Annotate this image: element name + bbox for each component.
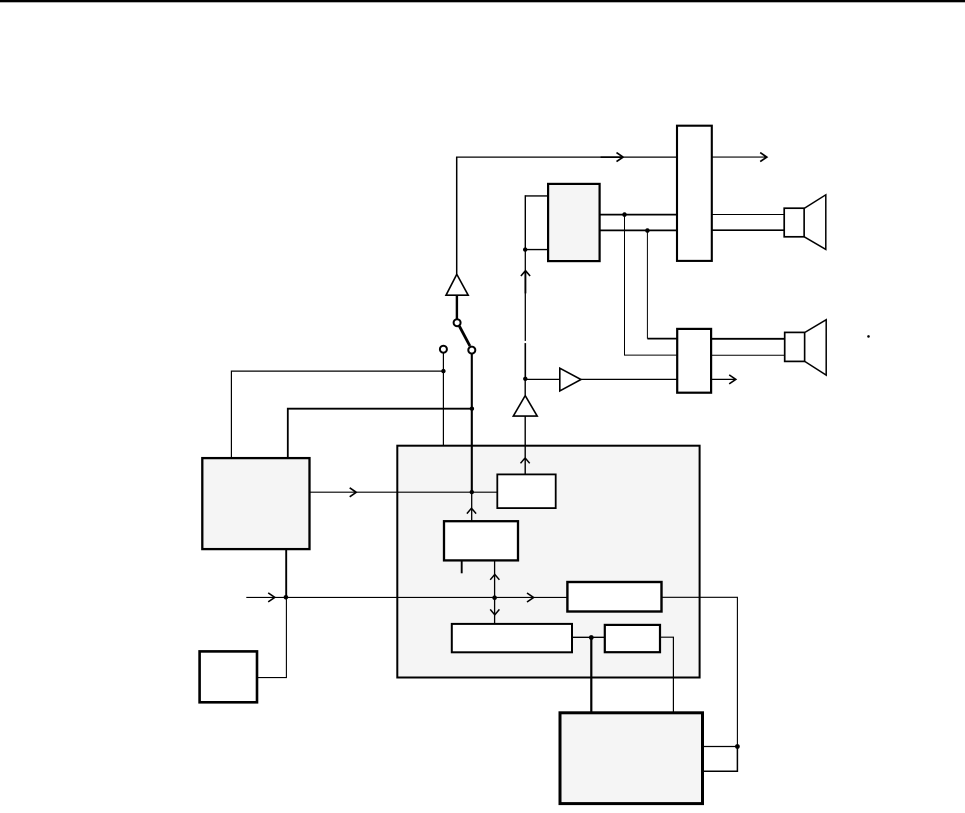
speaker SP1 driver box (784, 208, 804, 237)
wire: control line down into box3 with down arrow (494, 598, 496, 624)
arrow chevron at start of control line (268, 593, 275, 602)
arrow chevron up above box1 (521, 458, 530, 463)
stray dot (speck) (867, 335, 870, 338)
wire: top feed vertical from amp A1 up to top line (456, 157, 458, 275)
junction dot: box3/box5 node (589, 635, 594, 640)
wire: top horizontal line out of crossover R1 to arrow (680, 156, 766, 158)
junction dot: amp unit upper output tap (622, 212, 627, 217)
wire: arrow tail emphasis below feedback chevron (524, 271, 526, 294)
wire: left box top right lead up and over to switch common (288, 409, 473, 459)
wire: R1 to speaker1 upper lead (712, 214, 785, 216)
speaker SP2 driver box (785, 332, 805, 361)
arrow chevron up below junction (467, 508, 476, 513)
amplifier A2 (points up) (513, 396, 537, 417)
wire: control line from box4 right, over and down (662, 597, 738, 746)
junction dot: bracket node (523, 247, 527, 251)
junction dot: box1 input node (470, 490, 474, 494)
arrow chevron on left box output (350, 488, 357, 497)
wire: top horizontal line into crossover R1 (456, 156, 680, 158)
wire: amp A1 base down to switch pole (456, 295, 458, 319)
junction dot: bottom right node (735, 744, 740, 749)
speaker SP1 horn (804, 195, 826, 250)
wire: node down and left into small box (257, 597, 286, 677)
wire: R2 to speaker2 upper lead (thick) (712, 338, 785, 340)
wire: switch common down through junction to gray module (471, 353, 473, 492)
arrow chevron end of top line (760, 153, 767, 162)
wire: bracket bottom stub into amp unit (525, 249, 547, 251)
wire: amp unit lower output to R1 (599, 229, 677, 231)
arrow chevron up below box2 (490, 574, 499, 579)
amplifier A1 (points up) (446, 274, 468, 295)
block: bottom gray unit (560, 713, 703, 804)
wire: junction down into box2 with up arrow (471, 492, 473, 521)
wire: box2 bottom dead-end stub (461, 561, 463, 574)
wire: upper tap down and right to R2 (thin) (625, 215, 678, 356)
block: box5 inside module (605, 625, 660, 652)
wire: arrow tail emphasis on top line (601, 156, 624, 158)
block: box3 inside module (452, 624, 572, 652)
junction dot: switch throw node (441, 369, 445, 373)
wire: amp unit upper output to R1 (599, 214, 677, 216)
wire: amp A2 base down into box1 with up arrow (524, 416, 526, 475)
junction dot: box2/box3 node (492, 595, 497, 600)
junction dot: amp unit lower output tap (645, 228, 650, 233)
arrow chevron down above box3 (490, 609, 499, 614)
wire: bracket top stub into amp unit (525, 195, 547, 197)
top border rule (0, 0, 965, 2)
block: box4 inside module (567, 582, 661, 612)
wire: node down to gray module top edge (442, 371, 444, 445)
wire: link node down to bottom unit (thick) (590, 637, 592, 713)
block: box1 inside module (497, 474, 555, 508)
block: crossover network R1 (tall rectangle) (677, 126, 712, 261)
wire: bracket vertical (524, 195, 526, 249)
speaker SP2 horn (805, 320, 827, 375)
block: left source unit (202, 458, 309, 549)
block: crossover network R2 (lower rectangle) (677, 329, 711, 393)
wire: node to amp A3 input (525, 378, 559, 380)
amplifier A3 (points right) (560, 368, 581, 391)
wire: feedback line lower part to amp node (524, 343, 526, 379)
wire: right drop lower segment with stubs into bottom unit (702, 747, 737, 772)
switch pole contact circle (454, 319, 461, 326)
junction dot: control line left node (284, 595, 289, 600)
block: small bottom-left box (200, 651, 257, 702)
wire: node down to amp A2 apex (524, 379, 526, 397)
wire: amp A3 output to lower crossover R2 (581, 378, 677, 380)
wire: R1 to speaker1 lower lead (712, 229, 785, 231)
block: main gray module (large control unit) (397, 446, 699, 678)
wire: lower tap down and right to R2 (thick) (646, 231, 648, 339)
switch common contact circle (468, 347, 475, 354)
wire: feedback line below bracket node (upper part) (524, 250, 526, 341)
wire: left box top left lead up and over to switch throw (231, 371, 443, 458)
junction dot: switch common node (470, 407, 474, 411)
switch blade (459, 326, 470, 346)
wire: bottom main control line left segment (246, 596, 567, 598)
wire: box5 right over and down to bottom unit (660, 637, 673, 713)
wire: R2 to speaker2 lower lead (thin) (712, 354, 785, 356)
wire: switch throw stub down to node (442, 353, 444, 371)
block: amplifier unit (small gray box) (548, 184, 600, 261)
arrow chevron mid top line (617, 153, 624, 162)
arrow chevron end of R2 output (729, 375, 736, 384)
arrow chevron before box4 (527, 593, 534, 602)
arrow chevron up on feedback line (521, 271, 530, 276)
wire: upper stub into bottom unit (702, 746, 737, 748)
wire: box2 bottom to control line with up arrow (494, 561, 496, 598)
switch throw contact circle (440, 346, 447, 353)
wire: R2 output to arrow (712, 378, 735, 380)
wire: left box bottom lead down to control line (thick) (285, 549, 287, 597)
wire: box3 to box5 link (572, 636, 605, 638)
junction dot: amp A2/A3 node (523, 377, 527, 381)
wire: left box output right to box1 (310, 491, 498, 493)
block: box2 inside module (444, 521, 518, 560)
